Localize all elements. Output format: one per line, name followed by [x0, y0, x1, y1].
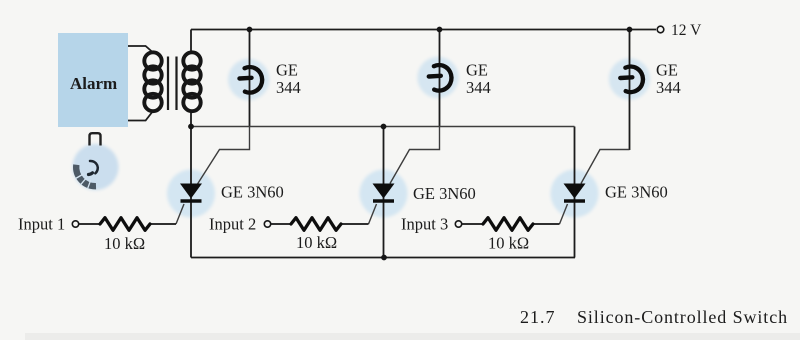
- svg-text:344: 344: [656, 78, 681, 97]
- svg-text:GE 3N60: GE 3N60: [605, 183, 668, 202]
- svg-text:GE 3N60: GE 3N60: [221, 183, 284, 202]
- svg-text:Alarm: Alarm: [70, 74, 117, 93]
- svg-text:21.7: 21.7: [520, 307, 556, 327]
- svg-text:344: 344: [276, 78, 301, 97]
- svg-text:GE 3N60: GE 3N60: [413, 184, 476, 203]
- svg-text:Input 2: Input 2: [209, 215, 256, 234]
- svg-text:10 kΩ: 10 kΩ: [296, 233, 337, 252]
- svg-text:GE: GE: [466, 61, 488, 80]
- svg-text:GE: GE: [276, 61, 298, 80]
- svg-text:12 V: 12 V: [671, 22, 702, 39]
- svg-text:Silicon-Controlled Switch: Silicon-Controlled Switch: [577, 307, 788, 327]
- svg-text:GE: GE: [656, 61, 678, 80]
- svg-text:10 kΩ: 10 kΩ: [104, 234, 145, 253]
- svg-text:Input 1: Input 1: [18, 215, 65, 234]
- svg-text:Input 3: Input 3: [401, 215, 448, 234]
- svg-text:10 kΩ: 10 kΩ: [488, 234, 529, 253]
- svg-text:344: 344: [466, 78, 491, 97]
